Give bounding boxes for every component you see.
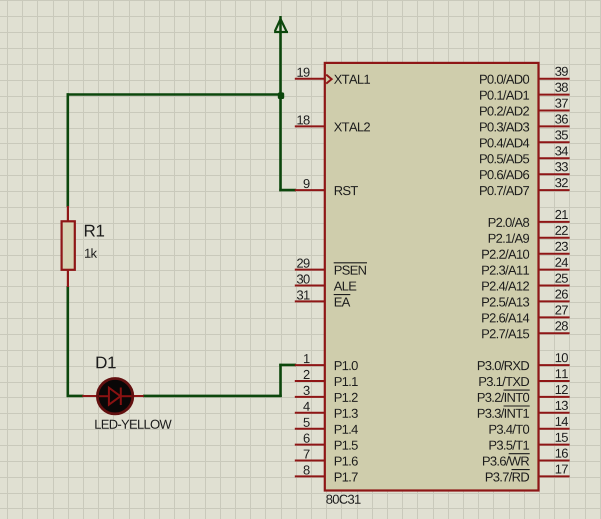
pin 17 P3.7/RD (right) — [486, 465, 570, 482]
reference label R1 — [85, 225, 104, 237]
LED D1 body (circle) — [97, 379, 132, 414]
pin 7 P1.6 (left) — [295, 450, 358, 466]
pin 38 P0.1/AD1 (right) — [480, 83, 570, 100]
reference label D1 — [97, 357, 116, 369]
pin 33 P0.6/AD6 (right) — [480, 162, 570, 179]
pin 2 P1.1 (left) — [295, 370, 358, 386]
pin 3 P1.2 (left) — [295, 386, 358, 402]
pin 29 PSEN (left) — [295, 259, 367, 275]
IC U1 80C31 body — [325, 63, 539, 491]
pin 12 P3.2/INT0 (right) — [478, 385, 570, 402]
junction node (VCC rail / R1 branch) — [278, 92, 284, 99]
wire: horizontal into LED anode — [67, 395, 84, 398]
pin 19 XTAL1 (left) — [295, 68, 370, 84]
pin 27 P2.6/A14 (right) — [482, 305, 569, 322]
pin 9 RST (left) — [295, 179, 358, 195]
pin 26 P2.5/A13 (right) — [482, 289, 569, 306]
LED D1 anode lead — [82, 395, 97, 397]
pin 34 P0.5/AD5 (right) — [480, 146, 570, 163]
pin 39 P0.0/AD0 (right) — [480, 67, 570, 84]
resistor R1 top lead — [67, 206, 69, 222]
pin 21 P2.0/A8 (right) — [489, 210, 570, 227]
wire: riser up to P1.0 row — [279, 364, 282, 397]
pin 13 P3.3/INT1 (right) — [478, 401, 570, 418]
pin 4 P1.3 (left) — [295, 402, 358, 418]
pin 32 P0.7/AD7 (right) — [480, 178, 570, 195]
pin 8 P1.7 (left) — [295, 465, 358, 481]
pin 16 P3.6/WR (right) — [483, 449, 570, 466]
pin 11 P3.1/TXD (right) — [479, 369, 569, 386]
wire: P1.0 row horizontal to pin 1 — [279, 364, 296, 367]
wire: vertical down to R1 top — [67, 93, 70, 207]
wire: LED cathode to riser — [143, 395, 282, 398]
pin 24 P2.3/A11 (right) — [482, 258, 569, 275]
pin 28 P2.7/A15 (right) — [482, 321, 569, 338]
resistor R1 body — [62, 221, 75, 269]
part label 80C31 — [326, 495, 360, 504]
pin 31 EA (left) — [295, 290, 351, 306]
value label 1k — [85, 248, 97, 257]
LED D1 cathode lead — [133, 395, 144, 397]
pin 1 P1.0 (left) — [295, 354, 358, 370]
LED D1 diode symbol — [99, 388, 132, 406]
power symbol VCC (up arrow) — [274, 16, 288, 32]
pin 22 P2.1/A9 (right) — [489, 226, 570, 243]
pin 14 P3.4/T0 (right) — [489, 417, 569, 434]
pin 25 P2.4/A12 (right) — [482, 274, 569, 291]
resistor R1 bottom lead — [67, 270, 69, 287]
wire: RST row horizontal to pin 9 — [279, 189, 296, 192]
pin 35 P0.4/AD4 (right) — [480, 130, 570, 147]
pin 37 P0.2/AD2 (right) — [480, 99, 570, 116]
wire: R1 bottom down to LED row — [67, 286, 70, 397]
pin 15 P3.5/T1 (right) — [489, 433, 569, 450]
pin 30 ALE (left) — [295, 274, 357, 290]
pin 6 P1.5 (left) — [295, 434, 358, 450]
value label LED-YELLOW — [95, 420, 171, 429]
pin 18 XTAL2 (left) — [295, 115, 370, 131]
pin 36 P0.3/AD3 (right) — [480, 114, 570, 131]
pin 23 P2.2/A10 (right) — [482, 242, 569, 259]
pin 5 P1.4 (left) — [295, 418, 358, 434]
XTAL1 clock input arrow — [326, 75, 331, 84]
pin 10 P3.0/RXD (right) — [478, 353, 570, 370]
wire: VCC rail vertical down to RST row — [279, 32, 282, 191]
wire: junction to R1 column horizontal — [67, 93, 282, 96]
